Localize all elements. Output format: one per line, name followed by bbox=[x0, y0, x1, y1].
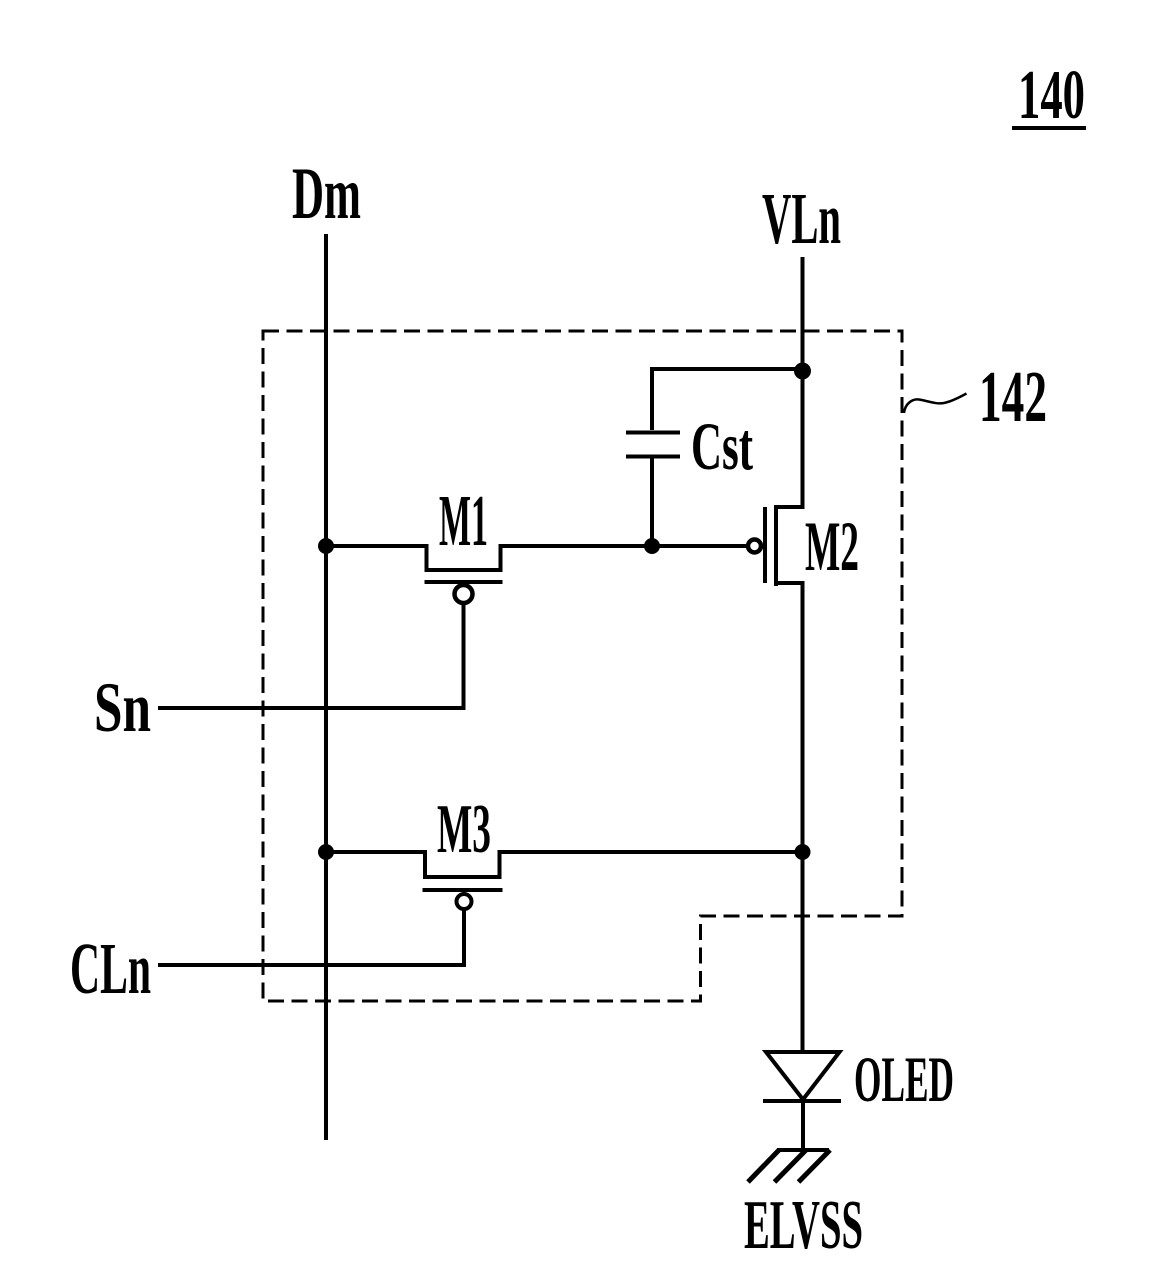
svg-text:M3: M3 bbox=[437, 791, 491, 868]
svg-text:Dm: Dm bbox=[292, 153, 361, 235]
svg-text:VLn: VLn bbox=[762, 178, 841, 259]
svg-text:Sn: Sn bbox=[94, 669, 151, 747]
svg-text:Cst: Cst bbox=[691, 408, 753, 484]
svg-text:M2: M2 bbox=[805, 508, 859, 586]
svg-text:OLED: OLED bbox=[854, 1044, 954, 1116]
svg-text:140: 140 bbox=[1018, 57, 1085, 134]
svg-text:M1: M1 bbox=[439, 480, 488, 561]
svg-text:ELVSS: ELVSS bbox=[744, 1187, 863, 1264]
svg-text:CLn: CLn bbox=[70, 928, 151, 1009]
svg-text:142: 142 bbox=[979, 356, 1047, 437]
